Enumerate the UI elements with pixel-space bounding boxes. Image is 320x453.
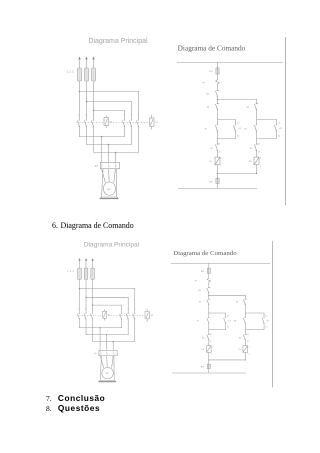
wire from rule [208, 263, 210, 268]
svg-text:F7: F7 [94, 353, 97, 355]
wire F7 to motor 2 [108, 169, 111, 182]
switch B1 [207, 288, 210, 293]
wire bottom rail [172, 372, 246, 374]
node join right [256, 173, 257, 174]
motor M1 [102, 367, 113, 378]
wire K2 pole 3 down [138, 130, 140, 153]
wire L3 lead [93, 59, 95, 68]
wire parallel top K1 [208, 312, 226, 314]
svg-text:1: 1 [260, 158, 261, 160]
wire F7 to B1 [217, 84, 219, 91]
wire bell left leg [102, 169, 103, 197]
wire coil K1 down [217, 165, 219, 179]
node phase 2 branch [85, 297, 86, 298]
wire aux K1 top [225, 313, 227, 315]
fuse F23 [207, 267, 210, 274]
node tap 2 [106, 334, 107, 335]
actuator K2 [150, 115, 155, 130]
wire branch 3 drop [124, 111, 126, 118]
svg-text:3: 3 [128, 309, 129, 311]
contactor K1 pole 1 [78, 311, 80, 322]
svg-text:F23: F23 [201, 271, 204, 273]
coil K2 [243, 346, 248, 353]
svg-text:14: 14 [227, 327, 229, 329]
svg-text:S3: S3 [246, 107, 249, 109]
wire F7 to B1 [208, 282, 210, 288]
overload element [115, 163, 117, 168]
figure: bottom schematic pair (scaled copy) [67, 241, 272, 387]
svg-text:14: 14 [237, 135, 239, 137]
svg-text:1: 1 [78, 115, 79, 117]
wire L2 lead [85, 260, 87, 268]
wire F22 to rail [217, 185, 219, 189]
fuse F1 [78, 68, 82, 81]
svg-text:5: 5 [138, 115, 139, 117]
contactor K1 pole 2 [84, 117, 87, 130]
svg-text:S1: S1 [197, 321, 199, 323]
frame right border [271, 241, 273, 387]
wire L2 lead [86, 59, 88, 68]
aux contact K1 13-14 [233, 122, 236, 134]
svg-text:2: 2 [260, 166, 261, 168]
supply terminal L1 [78, 258, 80, 260]
contactor K2 pole 1 [122, 117, 125, 130]
svg-text:13: 13 [278, 123, 280, 125]
motor M1 [103, 182, 115, 195]
fuse F1 link [78, 269, 80, 279]
wire K2 pole 1 down [124, 130, 126, 137]
svg-text:B1: B1 [198, 290, 200, 292]
node phase 2 branch [86, 101, 88, 103]
svg-text:1, 2, 3: 1, 2, 3 [67, 71, 75, 74]
wire K1 pole 3 down [93, 130, 95, 153]
fuse F23 [216, 67, 219, 75]
pushbutton S1 [215, 122, 218, 134]
wire K2 pole 2 down [127, 322, 129, 335]
wire F22 to rail [208, 370, 210, 373]
fuse F3 [92, 68, 96, 81]
svg-text:13: 13 [237, 123, 239, 125]
wire parallel top K1 [217, 119, 236, 121]
supply terminal L3 [92, 57, 94, 60]
fuse F3 [91, 268, 95, 279]
coil K1 [215, 157, 220, 165]
wire to coil K1 [208, 341, 210, 345]
wire tie 2 [86, 144, 132, 146]
wire phase 2 to K1 [86, 81, 88, 117]
wire phase 1 to K1 [79, 81, 81, 117]
overload contact F7 [207, 278, 210, 282]
wire mechanical link dashed [77, 122, 150, 124]
wire tap 3 to F7 [115, 153, 117, 163]
wire K2 pole 3 down [134, 322, 136, 342]
svg-text:K1: K1 [108, 315, 110, 317]
wire K2 pole 2 down [131, 130, 133, 145]
actuator K1 [102, 309, 106, 320]
supply terminal L2 [85, 57, 87, 60]
svg-text:K2: K2 [156, 122, 159, 124]
fuse F22 [216, 177, 219, 184]
svg-text:3: 3 [85, 309, 86, 311]
wire bell right leg [113, 356, 115, 380]
wire mechanical link dashed [77, 315, 145, 317]
svg-text:S1: S1 [205, 129, 208, 131]
svg-text:3: 3 [131, 115, 132, 117]
svg-text:1: 1 [221, 158, 222, 160]
wire F7 to motor 3 [114, 169, 116, 183]
actuator K1 [104, 115, 109, 128]
wire top rule [177, 62, 283, 64]
wire aux K2 top [276, 119, 278, 122]
svg-text:K2: K2 [249, 161, 252, 163]
svg-text:K1: K1 [239, 128, 242, 130]
wire B1 to node [208, 293, 210, 300]
overload element [101, 163, 103, 168]
svg-text:5: 5 [92, 309, 93, 311]
svg-text:S2: S2 [234, 321, 236, 323]
node tap 2 [108, 144, 110, 146]
switch B1 [215, 91, 219, 97]
overload element [112, 351, 114, 355]
overload element [106, 351, 108, 355]
node join right [245, 359, 246, 360]
wire phase 1 to K1 [78, 279, 80, 310]
svg-text:21: 21 [258, 144, 260, 146]
wire to coil K2 [256, 152, 258, 157]
pushbutton S3 [243, 299, 246, 304]
svg-text:K2: K2 [151, 315, 153, 317]
wire tie 3 [94, 152, 139, 154]
aux contact K2 13-14 [274, 122, 277, 134]
wire F23 to F7 [208, 274, 210, 278]
figure: top schematic pair [67, 37, 286, 205]
wire aux K1 bottom [225, 326, 227, 330]
node tap 3 [113, 341, 114, 342]
node join rungs [208, 359, 209, 360]
svg-text:2: 2 [211, 354, 212, 356]
svg-text:1: 1 [121, 309, 122, 311]
svg-text:1: 1 [78, 309, 79, 311]
wire aux K2 bottom [263, 326, 265, 330]
svg-text:K1: K1 [210, 161, 213, 163]
wire K1 pole 1 down [79, 130, 81, 137]
wire to right rung [217, 99, 257, 101]
wire K2 pole 1 down [121, 322, 123, 328]
node tap 1 [101, 136, 103, 138]
svg-text:2: 2 [116, 166, 117, 168]
contactor K2 pole 2 [126, 311, 128, 322]
svg-text:13: 13 [265, 316, 267, 318]
svg-text:K2: K2 [202, 338, 204, 340]
wire branch 3 horizontal [94, 110, 125, 112]
wire to coil K1 [217, 152, 219, 157]
overload relay F7 [100, 163, 119, 169]
coil K2 [254, 157, 259, 165]
wire K1 pole 2 down [86, 130, 88, 145]
overload element [108, 163, 110, 168]
fuse F1 link [79, 69, 81, 80]
fuse F2 link [85, 269, 87, 279]
pushbutton S0 [215, 104, 219, 110]
wire S2 to K1 interlock [256, 134, 258, 142]
wire parallel bottom K1 [208, 328, 226, 330]
wire branch 1 drop [134, 288, 136, 311]
wire F7 to motor 2 [106, 356, 109, 368]
actuator K2 [145, 309, 149, 322]
wire top rule [171, 262, 270, 264]
fuse F3 link [93, 69, 95, 80]
fuse F3 link [92, 269, 94, 279]
wire coil K2 down [256, 165, 258, 173]
wire parallel top K2 [245, 312, 264, 314]
wire branch 1 horizontal [79, 91, 139, 93]
wire branch 2 drop [127, 297, 129, 311]
wire coil K1 down [208, 352, 210, 364]
wire bottom rail [178, 188, 257, 190]
wire L1 lead [79, 59, 81, 68]
wire aux K1 bottom [235, 134, 237, 139]
node rung split [208, 295, 209, 296]
wire branch 2 horizontal [86, 101, 132, 103]
svg-text:21: 21 [218, 144, 220, 146]
wire tie 1 [79, 327, 122, 329]
contactor K2 pole 1 [120, 311, 122, 322]
wire aux K2 bottom [276, 134, 278, 139]
svg-text:5: 5 [134, 309, 135, 311]
wire branch 2 horizontal [86, 296, 129, 298]
aux contact K2 13-14 [262, 315, 264, 325]
interlock contact K2 21-22 [215, 142, 219, 152]
svg-text:K1: K1 [201, 349, 203, 351]
svg-text:5: 5 [93, 115, 94, 117]
fuse F22 [207, 363, 210, 369]
coil K1 [206, 346, 211, 353]
supply terminal L3 [91, 258, 93, 260]
svg-text:1: 1 [212, 347, 213, 349]
wire right rung top [244, 295, 246, 299]
svg-text:Diagrama Principal: Diagrama Principal [84, 242, 139, 249]
node phase 3 branch [93, 110, 95, 112]
wire phase 2 to K1 [85, 279, 87, 310]
svg-text:14: 14 [278, 135, 280, 137]
wire tie 2 [86, 334, 129, 336]
contactor K2 pole 2 [129, 117, 132, 130]
wire to coil K2 [244, 341, 246, 345]
svg-text:22: 22 [258, 152, 260, 154]
wire to right rung [208, 295, 245, 297]
svg-text:S3: S3 [236, 302, 238, 304]
svg-text:1, 2, 3: 1, 2, 3 [67, 271, 74, 273]
svg-text:21: 21 [247, 334, 249, 336]
svg-text:3: 3 [85, 115, 86, 117]
svg-text:K2: K2 [279, 128, 282, 130]
wire S0 to parallel [217, 110, 219, 123]
svg-text:F7: F7 [195, 281, 197, 283]
node join rungs [217, 173, 218, 174]
node tap 1 [99, 327, 100, 328]
contactor K2 pole 3 [136, 117, 139, 130]
svg-text:K1: K1 [239, 338, 241, 340]
supply terminal L2 [85, 258, 87, 260]
node tap 3 [115, 152, 117, 154]
wire branch 2 drop [131, 101, 133, 117]
wire tap 2 to F7 [108, 145, 110, 163]
wire S1 to K2 interlock [208, 326, 210, 333]
node rung split [217, 99, 218, 100]
fuse F2 [85, 68, 89, 81]
wire F7 to motor 1 [100, 356, 104, 368]
fuse F2 [84, 268, 88, 279]
wire tap 3 to F7 [112, 342, 114, 351]
svg-text:S2: S2 [244, 129, 247, 131]
contactor K1 pole 1 [77, 117, 80, 130]
svg-text:F7: F7 [95, 166, 98, 168]
wire K1 pole 3 down [92, 322, 94, 342]
overload relay F7 [99, 350, 117, 355]
wire branch 1 horizontal [79, 288, 135, 290]
node phase 1 branch [79, 288, 80, 289]
svg-text:F22: F22 [209, 181, 213, 183]
pushbutton S0 [207, 299, 210, 304]
svg-text:2: 2 [102, 166, 103, 168]
wire bell right leg [115, 169, 117, 197]
wire tie 3 [93, 341, 135, 343]
supply terminal L1 [78, 57, 80, 60]
wire K1 pole 2 down [85, 322, 87, 335]
pushbutton S3 [254, 104, 258, 110]
wire from rule [217, 62, 219, 68]
svg-text:14: 14 [265, 327, 267, 329]
motor base bar [99, 381, 116, 383]
overload contact F7 [216, 80, 220, 85]
svg-text:K1: K1 [229, 320, 231, 322]
wire coil K2 down [244, 352, 246, 359]
wire tap 1 to F7 [99, 328, 101, 350]
interlock contact K2 21-22 [207, 333, 210, 341]
wire branch 3 drop [121, 305, 123, 311]
wire rung join [217, 173, 257, 175]
wire tap 1 to F7 [101, 137, 103, 163]
svg-text:K1: K1 [110, 122, 113, 124]
svg-text:22: 22 [218, 152, 220, 154]
svg-text:F23: F23 [209, 71, 213, 73]
interlock contact K1 21-22 [254, 142, 258, 152]
contactor K1 pole 2 [84, 311, 86, 322]
svg-text:2: 2 [220, 166, 221, 168]
wire rung join [208, 359, 245, 361]
wire phase 3 to K1 [93, 81, 95, 117]
interlock contact K1 21-22 [243, 333, 246, 341]
motor base [100, 197, 118, 199]
wire S3 to parallel [256, 110, 258, 123]
aux contact K1 13-14 [224, 315, 226, 325]
svg-text:Diagrama de Comando: Diagrama de Comando [178, 44, 246, 53]
wire F7 to motor 3 [112, 356, 114, 368]
wire aux K1 top [235, 119, 237, 122]
pushbutton S2 [243, 315, 245, 325]
node phase 1 branch [79, 91, 81, 93]
wire L3 lead [92, 260, 94, 268]
svg-text:F22: F22 [201, 367, 204, 369]
wire S3 to parallel [244, 304, 246, 315]
wire F7 to motor 1 [102, 169, 106, 183]
wire bell left leg [100, 356, 101, 380]
overload element [99, 351, 101, 355]
svg-text:21: 21 [210, 334, 212, 336]
wire parallel bottom K2 [257, 138, 277, 140]
pushbutton S1 [207, 315, 209, 325]
svg-text:22: 22 [210, 341, 212, 343]
wire S2 to K1 interlock [244, 326, 246, 333]
wire parallel top K2 [257, 119, 277, 121]
frame right border [285, 37, 287, 205]
svg-text:B1: B1 [206, 93, 209, 95]
wire L1 lead [78, 260, 80, 268]
wire parallel bottom K2 [245, 328, 264, 330]
svg-text:K2: K2 [267, 320, 269, 322]
svg-text:Diagrama de Comando: Diagrama de Comando [173, 250, 237, 257]
fuse F1 [78, 268, 82, 279]
svg-text:S0: S0 [199, 302, 201, 304]
wire F23 to F7 [217, 75, 219, 80]
motor base bar [100, 198, 118, 200]
svg-text:Diagrama Principal: Diagrama Principal [88, 38, 148, 45]
wire tap 2 to F7 [106, 335, 108, 350]
svg-text:2: 2 [249, 354, 250, 356]
svg-text:K2: K2 [210, 148, 213, 150]
motor base [99, 380, 116, 381]
svg-text:K1: K1 [250, 148, 253, 150]
wire S1 to K2 interlock [217, 134, 219, 142]
wire tie 1 [79, 136, 125, 138]
svg-text:F7: F7 [203, 83, 206, 85]
wire right rung top [256, 99, 258, 104]
wire branch 3 horizontal [93, 304, 122, 306]
contactor K1 pole 3 [91, 117, 94, 130]
svg-text:22: 22 [247, 341, 249, 343]
svg-text:2: 2 [109, 166, 110, 168]
svg-text:1: 1 [249, 347, 250, 349]
svg-text:13: 13 [227, 316, 229, 318]
svg-text:S0: S0 [207, 107, 210, 109]
node phase 3 branch [92, 304, 93, 305]
wire phase 3 to K1 [92, 279, 94, 310]
svg-text:M3~: M3~ [106, 373, 110, 375]
svg-text:1: 1 [124, 115, 125, 117]
svg-text:K2: K2 [239, 349, 241, 351]
wire B1 to node [217, 96, 219, 104]
pushbutton S2 [254, 122, 257, 134]
wire S0 to parallel [208, 304, 210, 315]
wire aux K2 top [263, 313, 265, 315]
wire parallel bottom K1 [217, 138, 236, 140]
wire K1 pole 1 down [78, 322, 80, 328]
contactor K2 pole 3 [133, 311, 135, 322]
wire branch 1 drop [138, 91, 140, 117]
contactor K1 pole 3 [91, 311, 93, 322]
fuse F2 link [86, 69, 88, 80]
